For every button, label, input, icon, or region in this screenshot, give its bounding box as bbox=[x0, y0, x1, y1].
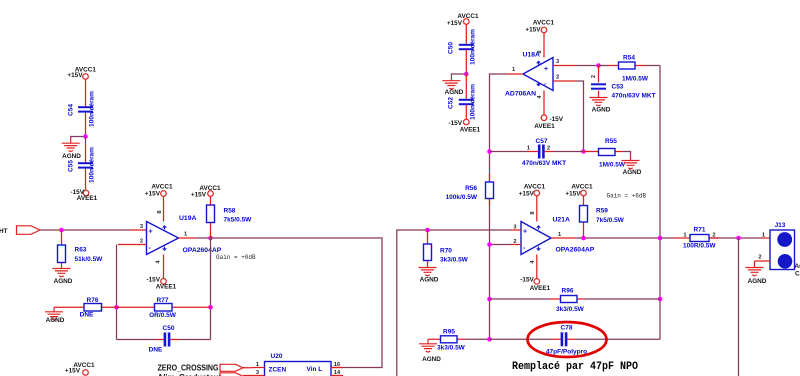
svg-text:3k3/0.5W: 3k3/0.5W bbox=[556, 306, 585, 313]
svg-text:51k/0.5W: 51k/0.5W bbox=[75, 256, 104, 263]
svg-text:C50: C50 bbox=[163, 325, 175, 332]
svg-text:1M/0.5W: 1M/0.5W bbox=[599, 162, 626, 169]
svg-text:-15V: -15V bbox=[520, 277, 534, 284]
svg-text:3: 3 bbox=[256, 370, 259, 376]
svg-text:C50: C50 bbox=[448, 42, 455, 54]
svg-text:+: + bbox=[544, 66, 548, 73]
svg-text:OR/0.5W: OR/0.5W bbox=[149, 312, 177, 319]
svg-text:1: 1 bbox=[527, 146, 530, 152]
svg-text:AGND: AGND bbox=[748, 278, 767, 285]
svg-text:OPA2604AP: OPA2604AP bbox=[556, 247, 595, 254]
svg-text:8: 8 bbox=[537, 50, 543, 53]
svg-text:14: 14 bbox=[334, 370, 341, 376]
svg-text:R77: R77 bbox=[157, 297, 169, 304]
svg-text:R71: R71 bbox=[694, 227, 706, 234]
svg-text:100n céram: 100n céram bbox=[470, 29, 477, 65]
svg-text:J13: J13 bbox=[775, 222, 786, 229]
svg-text:8: 8 bbox=[157, 210, 163, 213]
svg-text:3: 3 bbox=[556, 59, 559, 65]
svg-text:470n/63V MKT: 470n/63V MKT bbox=[522, 160, 566, 167]
svg-text:7k5/0.5W: 7k5/0.5W bbox=[596, 217, 625, 224]
svg-text:2: 2 bbox=[591, 75, 597, 78]
svg-text:C53: C53 bbox=[612, 84, 624, 91]
svg-text:3: 3 bbox=[513, 224, 516, 230]
svg-text:ZCEN: ZCEN bbox=[269, 367, 287, 374]
svg-text:R96: R96 bbox=[562, 288, 574, 295]
svg-text:GHT: GHT bbox=[0, 228, 8, 235]
svg-text:AGND: AGND bbox=[62, 153, 81, 160]
svg-text:AVCC1: AVCC1 bbox=[533, 20, 555, 27]
svg-text:+15V: +15V bbox=[565, 191, 581, 198]
svg-text:R76: R76 bbox=[87, 297, 99, 304]
svg-text:U19A: U19A bbox=[179, 215, 196, 222]
svg-text:+15V: +15V bbox=[191, 192, 207, 199]
svg-text:100n céram: 100n céram bbox=[89, 147, 96, 183]
svg-text:+15V: +15V bbox=[519, 191, 535, 198]
svg-text:R55: R55 bbox=[605, 138, 617, 145]
svg-text:R63: R63 bbox=[75, 247, 87, 254]
svg-text:Vin L: Vin L bbox=[307, 366, 323, 373]
svg-text:Gain = +0dB: Gain = +0dB bbox=[216, 254, 256, 261]
svg-text:Gain = +6dB: Gain = +6dB bbox=[607, 193, 647, 200]
svg-text:AD706AN: AD706AN bbox=[505, 91, 536, 98]
svg-text:AVEE1: AVEE1 bbox=[530, 285, 551, 292]
svg-text:7k5/0.5W: 7k5/0.5W bbox=[224, 217, 253, 224]
svg-text:+15V: +15V bbox=[67, 72, 83, 79]
svg-text:U20: U20 bbox=[271, 353, 283, 360]
svg-text:AVEE1: AVEE1 bbox=[460, 127, 481, 134]
svg-text:AGND: AGND bbox=[54, 278, 73, 285]
svg-text:+15V: +15V bbox=[65, 368, 81, 375]
svg-text:+: + bbox=[523, 229, 527, 236]
svg-text:C57: C57 bbox=[536, 138, 548, 145]
svg-text:+15V: +15V bbox=[145, 191, 161, 198]
svg-text:AVEE1: AVEE1 bbox=[77, 195, 98, 202]
svg-text:R70: R70 bbox=[440, 248, 452, 255]
svg-text:AVEE1: AVEE1 bbox=[156, 284, 177, 291]
svg-text:R59: R59 bbox=[596, 208, 608, 215]
svg-text:AGND: AGND bbox=[46, 317, 65, 324]
svg-text:1: 1 bbox=[558, 232, 561, 238]
svg-text:C55: C55 bbox=[68, 160, 75, 172]
svg-text:C54: C54 bbox=[68, 104, 75, 116]
svg-text:2: 2 bbox=[513, 239, 516, 245]
svg-text:1: 1 bbox=[512, 67, 515, 73]
svg-text:-15V: -15V bbox=[550, 116, 564, 123]
svg-text:R56: R56 bbox=[465, 185, 477, 192]
svg-text:3: 3 bbox=[140, 224, 143, 230]
svg-text:1: 1 bbox=[762, 233, 765, 239]
svg-text:C52: C52 bbox=[448, 97, 455, 109]
svg-text:AVEE1: AVEE1 bbox=[534, 123, 555, 130]
svg-text:AVCC1: AVCC1 bbox=[571, 184, 593, 191]
svg-text:AGND: AGND bbox=[623, 169, 642, 176]
svg-text:2: 2 bbox=[712, 232, 715, 238]
svg-text:R54: R54 bbox=[623, 55, 635, 62]
svg-text:AVCC1: AVCC1 bbox=[524, 184, 546, 191]
svg-text:AGND: AGND bbox=[445, 89, 464, 96]
svg-text:100n céram: 100n céram bbox=[89, 91, 96, 127]
svg-text:DNE: DNE bbox=[80, 312, 94, 319]
svg-text:AGND: AGND bbox=[422, 356, 441, 363]
svg-text:100k/0.5W: 100k/0.5W bbox=[446, 194, 478, 201]
svg-text:2: 2 bbox=[556, 75, 559, 81]
svg-text:C78: C78 bbox=[561, 325, 573, 332]
svg-text:+: + bbox=[149, 229, 153, 236]
svg-text:+15V: +15V bbox=[525, 27, 541, 34]
svg-text:470n/63V MKT: 470n/63V MKT bbox=[612, 93, 656, 100]
svg-text:Remplacé par 47pF NPO: Remplacé par 47pF NPO bbox=[512, 361, 638, 373]
svg-text:1M/0.5W: 1M/0.5W bbox=[622, 76, 649, 83]
svg-text:DNE: DNE bbox=[149, 347, 163, 354]
svg-text:R95: R95 bbox=[443, 329, 455, 336]
svg-text:2: 2 bbox=[140, 239, 143, 245]
svg-text:AGND: AGND bbox=[420, 277, 439, 284]
svg-text:2: 2 bbox=[758, 255, 761, 261]
svg-text:Alim_Graduateur: Alim_Graduateur bbox=[158, 372, 223, 376]
svg-text:AGND: AGND bbox=[592, 106, 611, 113]
svg-text:+15V: +15V bbox=[447, 20, 463, 27]
svg-text:Ca: Ca bbox=[795, 271, 800, 278]
svg-text:ZERO_CROSSING: ZERO_CROSSING bbox=[158, 363, 219, 373]
svg-text:100R/0.5W: 100R/0.5W bbox=[683, 243, 716, 250]
svg-text:-15V: -15V bbox=[147, 277, 161, 284]
svg-text:8: 8 bbox=[530, 211, 536, 214]
svg-text:Au: Au bbox=[795, 263, 800, 270]
svg-text:2: 2 bbox=[547, 146, 550, 152]
svg-text:U21A: U21A bbox=[553, 217, 570, 224]
svg-text:100n céram: 100n céram bbox=[470, 84, 477, 120]
svg-text:3k3/0.5W: 3k3/0.5W bbox=[437, 345, 466, 352]
svg-text:3k3/0.5W: 3k3/0.5W bbox=[440, 257, 469, 264]
svg-text:AVCC1: AVCC1 bbox=[151, 184, 173, 191]
svg-text:OPA2604AP: OPA2604AP bbox=[183, 247, 222, 254]
svg-text:16: 16 bbox=[334, 362, 340, 368]
svg-text:1: 1 bbox=[256, 362, 259, 368]
svg-text:1: 1 bbox=[683, 232, 686, 238]
svg-text:1: 1 bbox=[184, 232, 187, 238]
svg-text:R58: R58 bbox=[224, 208, 236, 215]
